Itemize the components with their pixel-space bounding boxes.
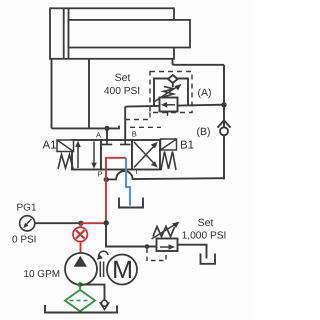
solenoid A1 box (57, 140, 74, 152)
svg-text:1,000 PSI: 1,000 PSI (182, 231, 227, 242)
wire tank line T blue (126, 170, 130, 206)
shutoff valve closed red (73, 223, 87, 253)
relief 400 adjust arrow (155, 84, 182, 102)
wire pressure line P red (105, 170, 107, 223)
filter diamond green (65, 290, 95, 312)
reservoir bottom (45, 305, 117, 313)
relief 400 spring (164, 87, 174, 97)
relief 400 drain stub (167, 112, 169, 117)
breather wire (80, 285, 104, 301)
check valve B on right vertical (218, 120, 231, 135)
blocked port A tee (102, 140, 112, 145)
suction junction green (78, 282, 83, 287)
rotation arrow (97, 251, 108, 260)
filter stem green (79, 285, 81, 290)
svg-text:B1: B1 (180, 140, 194, 152)
relief 400 valve body (160, 98, 178, 112)
pilot dashed line (147, 249, 166, 261)
svg-text:10 GPM: 10 GPM (23, 269, 60, 280)
wire cap-end port line (51, 59, 53, 129)
breather check (100, 300, 110, 309)
pilot check diamond (168, 75, 178, 87)
wire port B vertical (124, 107, 126, 140)
relief 1000 spring (153, 227, 175, 237)
valve tandem center path red (106, 158, 126, 170)
wire rod-end top horizontal (173, 64, 225, 66)
motor circle (107, 255, 137, 285)
svg-text:M: M (112, 256, 133, 284)
valve tandem center path blue (125, 158, 127, 170)
wire port A stub down to valve (106, 128, 108, 140)
node P-line junction (104, 177, 109, 182)
gauge PG1 (20, 216, 35, 231)
wire rod-side line to A-wire (88, 59, 90, 129)
pump circle (65, 253, 97, 285)
wire port A horizontal (52, 126, 120, 129)
relief 400 pilot loop (154, 79, 188, 107)
relief 1000 adjust arrow (152, 222, 180, 240)
spring right (161, 152, 176, 171)
wire rod port line (172, 59, 174, 65)
svg-text:0 PSI: 0 PSI (12, 235, 36, 246)
svg-text:(A): (A) (198, 87, 212, 99)
svg-text:T: T (134, 167, 139, 176)
svg-text:B: B (132, 129, 137, 138)
svg-text:Set: Set (115, 72, 131, 84)
spring left (58, 155, 73, 170)
node pump outlet junction (78, 221, 83, 226)
node right junction (221, 102, 226, 107)
cylinder rod (69, 20, 191, 48)
svg-text:PG1: PG1 (17, 203, 37, 214)
svg-text:P: P (98, 169, 103, 178)
svg-text:Set: Set (198, 217, 214, 229)
right envelope crossed arrows (134, 142, 158, 168)
node relief branch junction (104, 220, 109, 225)
blocked port B tee (120, 140, 130, 145)
node port A junction (104, 126, 109, 131)
cylinder barrel (50, 8, 174, 59)
cylinder piston (64, 9, 69, 58)
tank symbol relief (201, 254, 216, 264)
wire bottom return with hop (106, 171, 224, 179)
left envelope arrow down (91, 142, 97, 169)
tank symbol under valve (119, 198, 143, 208)
wire relief branch horizontal (125, 105, 224, 107)
svg-text:400 PSI: 400 PSI (104, 86, 140, 97)
enclosure dashed boundary (121, 72, 192, 128)
node pilot tap (145, 244, 150, 249)
solenoid B1 box (161, 139, 177, 150)
gauge wire (35, 222, 81, 224)
svg-text:(B): (B) (197, 126, 211, 138)
wire right vertical (223, 65, 225, 180)
relief 1000 body (157, 239, 178, 252)
svg-text:A: A (96, 131, 101, 140)
svg-text:A1: A1 (43, 140, 57, 152)
relief 1000 outlet wire (178, 245, 207, 259)
coupling shaft (100, 262, 103, 278)
left envelope arrow up (75, 141, 81, 168)
directional valve body envelopes (72, 140, 160, 170)
pump flow triangle (74, 256, 87, 267)
wire pump to junction red (81, 222, 106, 224)
relief 1000 branch wire (106, 225, 157, 247)
